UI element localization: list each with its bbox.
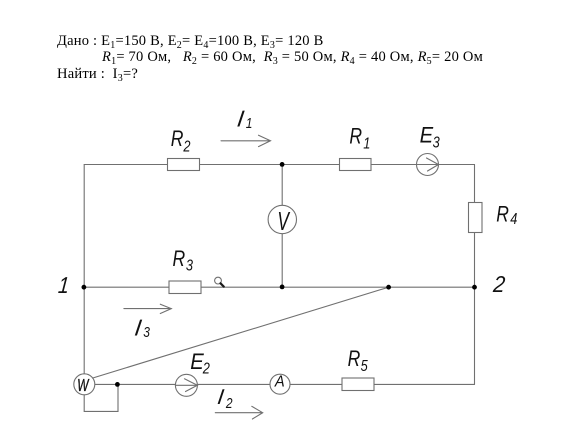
arrow I1 <box>221 135 271 146</box>
wire diagonal <box>93 287 389 378</box>
wire top horizontal <box>84 164 474 166</box>
svg-text:2: 2 <box>491 271 506 297</box>
wire voltmeter branch <box>281 165 283 288</box>
svg-text:1: 1 <box>246 115 253 132</box>
svg-text:I: I <box>133 315 144 341</box>
junction node 1 <box>82 285 87 290</box>
svg-text:3: 3 <box>433 134 440 152</box>
label E2 <box>190 349 204 374</box>
svg-text:3: 3 <box>186 257 193 275</box>
label I2 <box>216 384 225 409</box>
source E2 arrow <box>185 379 198 392</box>
label node 2 <box>491 271 506 297</box>
svg-text:R: R <box>348 347 361 372</box>
label R3 <box>173 247 186 272</box>
svg-text:W: W <box>77 376 90 396</box>
label V voltmeter <box>277 206 291 235</box>
svg-text:1: 1 <box>363 135 370 153</box>
label R1 <box>349 124 362 149</box>
given text line 2 <box>102 49 483 66</box>
label R4 <box>496 202 509 227</box>
svg-text:4: 4 <box>510 211 517 229</box>
label node 1 <box>57 273 70 299</box>
svg-text:2: 2 <box>225 395 233 412</box>
label I3 <box>133 315 144 341</box>
given text line 1 <box>57 33 324 50</box>
source E2 <box>175 374 197 396</box>
wire left vertical <box>83 165 85 375</box>
junction node wattmeter <box>115 382 120 387</box>
svg-text:R: R <box>496 202 509 227</box>
svg-text:3: 3 <box>143 324 150 341</box>
arrow I2 <box>215 406 262 419</box>
voltmeter V circle <box>268 205 296 233</box>
label W wattmeter <box>77 376 90 396</box>
source E3 <box>417 154 439 176</box>
junction node V bottom <box>280 285 285 290</box>
svg-text:R: R <box>173 247 186 272</box>
junction node top (V branch) <box>280 162 285 167</box>
source E3 arrow <box>427 158 439 171</box>
wattmeter W circle <box>74 374 95 395</box>
svg-text:I: I <box>216 384 225 409</box>
label A ammeter <box>274 373 285 390</box>
wire right vertical <box>474 165 476 385</box>
resistor R1 <box>340 159 372 171</box>
resistor R5 <box>342 378 374 391</box>
svg-text:I: I <box>236 106 247 132</box>
svg-text:2: 2 <box>202 360 210 378</box>
junction node diagonal <box>386 285 391 290</box>
svg-text:R: R <box>171 127 184 152</box>
svg-text:A: A <box>274 373 285 390</box>
svg-text:R: R <box>349 124 362 149</box>
label E3 <box>420 123 434 148</box>
svg-text:1: 1 <box>57 273 70 299</box>
junction node 2 <box>472 285 477 290</box>
resistor R4 <box>469 203 483 233</box>
label I1 <box>236 106 247 132</box>
arrow I3 <box>124 304 171 313</box>
switch blade <box>221 283 224 286</box>
wire bottom horizontal <box>95 383 475 385</box>
svg-text:E: E <box>420 123 434 148</box>
switch circle <box>215 277 222 284</box>
given text line 3 <box>57 66 138 83</box>
label R2 <box>171 127 184 152</box>
resistor R3 <box>169 281 201 294</box>
wire middle horizontal <box>84 286 474 288</box>
wire wattmeter loop <box>84 384 118 411</box>
ammeter A circle <box>270 374 290 394</box>
svg-text:5: 5 <box>361 358 369 376</box>
source E2 wire through <box>175 384 197 386</box>
label R5 <box>348 347 361 372</box>
source E3 wire through <box>417 164 439 166</box>
svg-text:2: 2 <box>183 138 191 156</box>
svg-text:V: V <box>277 206 291 235</box>
resistor R2 <box>168 159 200 171</box>
